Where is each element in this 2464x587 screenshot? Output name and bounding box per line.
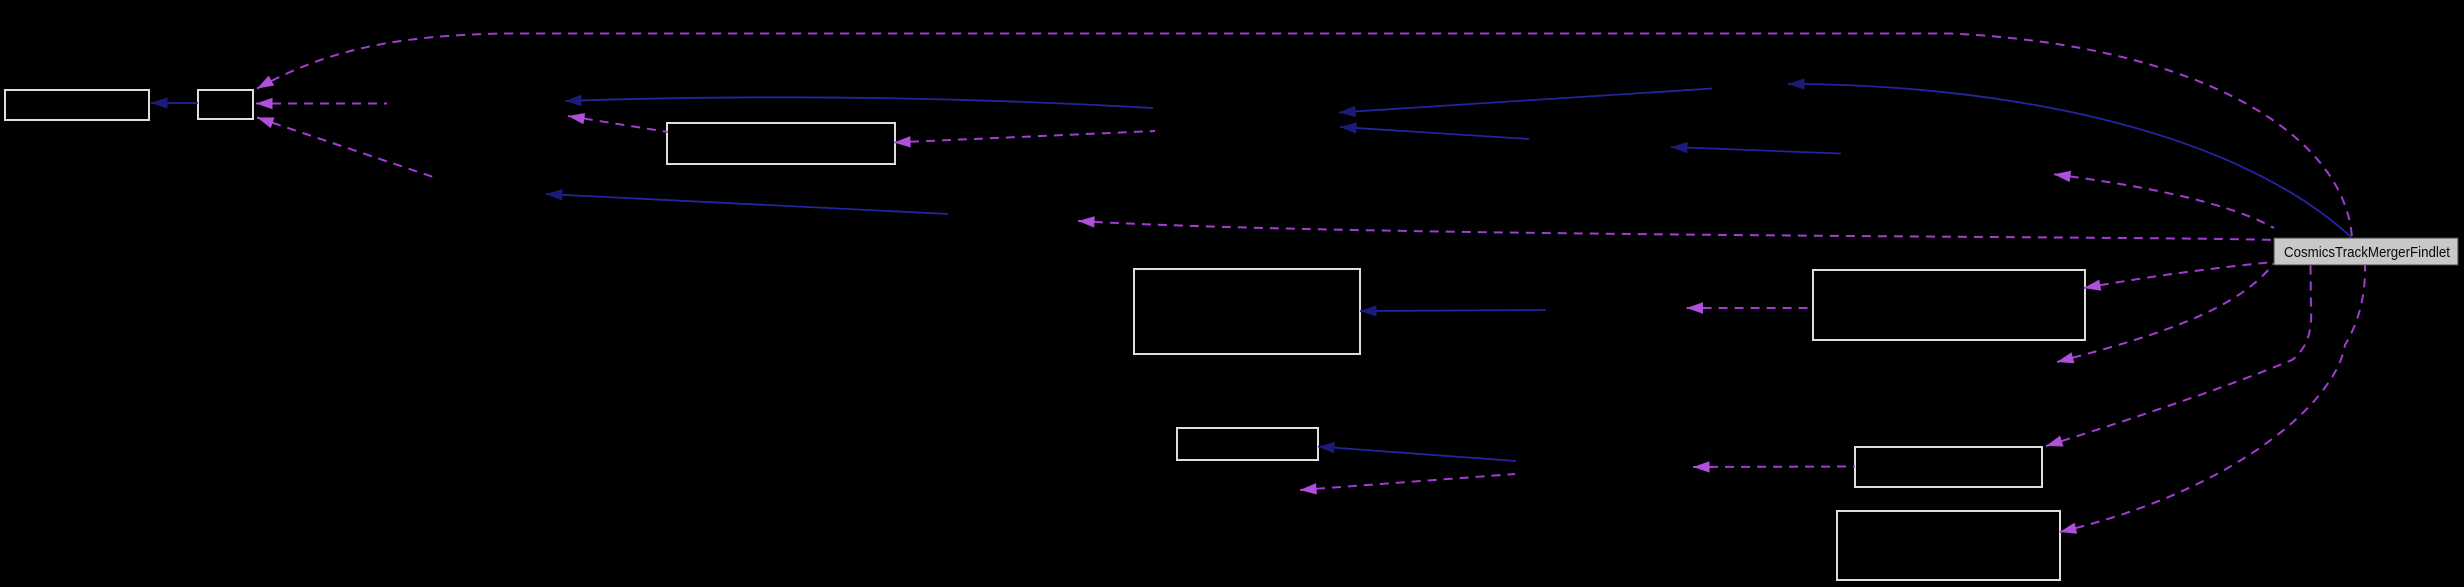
svg-text:CosmicsTrackMergerFindlet: CosmicsTrackMergerFindlet: [2284, 244, 2451, 261]
